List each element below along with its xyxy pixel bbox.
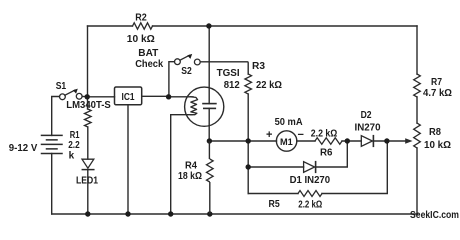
- IC1 regulator box: [115, 87, 142, 105]
- wire S1 to node A junction: [82, 96, 87, 98]
- svg-text:50 mA: 50 mA: [275, 117, 303, 128]
- wire meter to R6: [297, 140, 315, 142]
- IC1 ground pin wire to bottom rail: [127, 105, 129, 214]
- junction sensor bottom / R4 / meter rail: [207, 138, 212, 143]
- svg-text:R5: R5: [269, 199, 281, 210]
- meter M1 circle: [276, 131, 296, 151]
- junction node A (S1 / R1 / IC1): [85, 94, 90, 99]
- svg-text:S1: S1: [56, 81, 67, 92]
- svg-text:22 kΩ: 22 kΩ: [256, 80, 282, 91]
- switch S2 contact circles: [175, 59, 181, 65]
- junction top rail / sensor line: [206, 23, 211, 28]
- svg-text:−: −: [298, 129, 304, 141]
- junction ground rail / heater return: [168, 211, 173, 216]
- wire R3 bottom to meter rail junction: [247, 94, 249, 141]
- svg-text:SeekIC.com: SeekIC.com: [410, 210, 459, 221]
- junction ground rail / IC1 pin: [125, 211, 130, 216]
- switch S2 arrow head: [187, 54, 192, 59]
- junction node B (IC1 out / S2 / heater): [166, 94, 171, 99]
- resistor R7 body: [414, 74, 421, 97]
- resistor R3 body: [245, 74, 252, 94]
- wire D2 cathode to node D junction to R8 wiper: [373, 140, 405, 142]
- svg-text:812: 812: [224, 80, 240, 91]
- wire right column (top rail down through R7/R8 to bottom rail): [416, 26, 418, 214]
- svg-text:18 kΩ: 18 kΩ: [178, 171, 202, 182]
- svg-text:LM340T-S: LM340T-S: [66, 100, 111, 111]
- junction node D (D2 out / wiper / R5 return): [384, 138, 389, 143]
- switch S1 contact circles: [60, 94, 66, 100]
- resistor R5 body: [298, 191, 322, 197]
- svg-text:R8: R8: [429, 127, 441, 138]
- svg-text:4.7 kΩ: 4.7 kΩ: [423, 88, 452, 99]
- junction R3 bottom / meter rail / lower branch: [246, 138, 251, 143]
- junction D1 branch tap: [246, 164, 251, 169]
- potentiometer R8 wiper arrowhead: [405, 138, 412, 143]
- junction node C (R6 / D2 / D1 return): [345, 138, 350, 143]
- svg-text:R6: R6: [320, 147, 333, 158]
- battery B1 positive lead up to S1: [52, 97, 60, 136]
- resistor R2 body: [133, 23, 153, 29]
- svg-text:R7: R7: [431, 77, 442, 88]
- svg-text:D1 IN270: D1 IN270: [290, 175, 331, 186]
- battery B1 9-12V plates: [42, 135, 63, 153]
- wire IC1 output to node B junction and to sensor heater: [142, 95, 193, 98]
- svg-text:R2: R2: [135, 13, 147, 24]
- svg-text:BAT: BAT: [138, 48, 158, 59]
- wire D1 branch left segment: [248, 166, 303, 168]
- svg-text:R4: R4: [185, 161, 197, 172]
- svg-text:IN270: IN270: [355, 122, 381, 133]
- resistor R6 body: [315, 138, 342, 144]
- wire sensor electrode down to meter rail junction: [208, 108, 210, 141]
- battery B1 negative lead down to ground rail: [51, 154, 53, 215]
- diode D2 cathode bar: [372, 136, 374, 147]
- wire R1 to LED1: [87, 127, 89, 159]
- wire node B up to switch S2 left contact: [169, 62, 175, 97]
- resistor R4 body: [207, 141, 214, 214]
- diode D1 cathode bar: [315, 162, 317, 173]
- LED1 cathode bar: [82, 169, 94, 171]
- svg-text:S2: S2: [181, 66, 192, 77]
- junction ground rail / LED1: [85, 211, 90, 216]
- wire R5 right and up to node D: [322, 141, 387, 194]
- wire node A down to R1: [87, 97, 89, 109]
- sensor TGS1 812 envelope circle: [185, 87, 224, 126]
- svg-text:TGSI: TGSI: [217, 68, 240, 79]
- wire R6 to node C junction to D2 anode: [342, 140, 361, 142]
- switch S1 actuator arm: [65, 90, 75, 95]
- wire top junction down through sensor electrode: [208, 26, 210, 104]
- wire node under R3 down to D1 branch and R5 branch: [247, 141, 249, 194]
- svg-text:IC1: IC1: [122, 92, 135, 103]
- wire bottom ground rail: [52, 213, 418, 215]
- svg-text:2.2 kΩ: 2.2 kΩ: [298, 200, 322, 211]
- svg-text:Check: Check: [135, 59, 163, 70]
- svg-text:R3: R3: [252, 61, 265, 72]
- resistor R1 body: [85, 109, 92, 127]
- wire R4 leads: [208, 141, 210, 214]
- svg-text:2.2 kΩ: 2.2 kΩ: [311, 129, 338, 140]
- svg-text:+: +: [266, 129, 272, 141]
- wire R5 branch left segment: [248, 193, 298, 195]
- switch S2 actuator arm: [180, 55, 189, 60]
- svg-text:10 kΩ: 10 kΩ: [424, 140, 451, 151]
- junction ground rail / R4: [207, 211, 212, 216]
- diode D2 triangle: [361, 136, 372, 147]
- svg-text:M1: M1: [280, 137, 293, 148]
- wire heater bottom out to ground drop: [171, 115, 192, 214]
- wire node A to IC1 input: [87, 96, 115, 98]
- resistor R8 body (potentiometer): [414, 123, 421, 148]
- wire meter rail: sensor junction to R3 junction to meter: [209, 140, 276, 142]
- diode D1 triangle: [304, 162, 315, 173]
- wire D1 cathode right and up to node C: [316, 141, 348, 167]
- svg-text:9-12 V: 9-12 V: [9, 143, 38, 154]
- sensor electrode top plate: [203, 103, 216, 105]
- wire S2 right contact across to R3 top: [200, 62, 248, 74]
- LED1 diode triangle: [82, 159, 94, 168]
- wire top rail from left column to right column: [88, 25, 418, 27]
- svg-text:LED1: LED1: [76, 176, 98, 187]
- svg-text:2.2: 2.2: [68, 140, 80, 151]
- switch S1 arrow head: [73, 89, 78, 94]
- svg-text:k: k: [69, 151, 75, 162]
- svg-text:D2: D2: [361, 110, 372, 121]
- svg-text:10 kΩ: 10 kΩ: [127, 34, 155, 45]
- wire LED1 to ground rail: [87, 170, 89, 214]
- wire left column top (top rail down to S1 junction): [87, 26, 89, 97]
- sensor electrode bottom plate: [204, 107, 216, 109]
- sensor heater coil: [190, 97, 197, 115]
